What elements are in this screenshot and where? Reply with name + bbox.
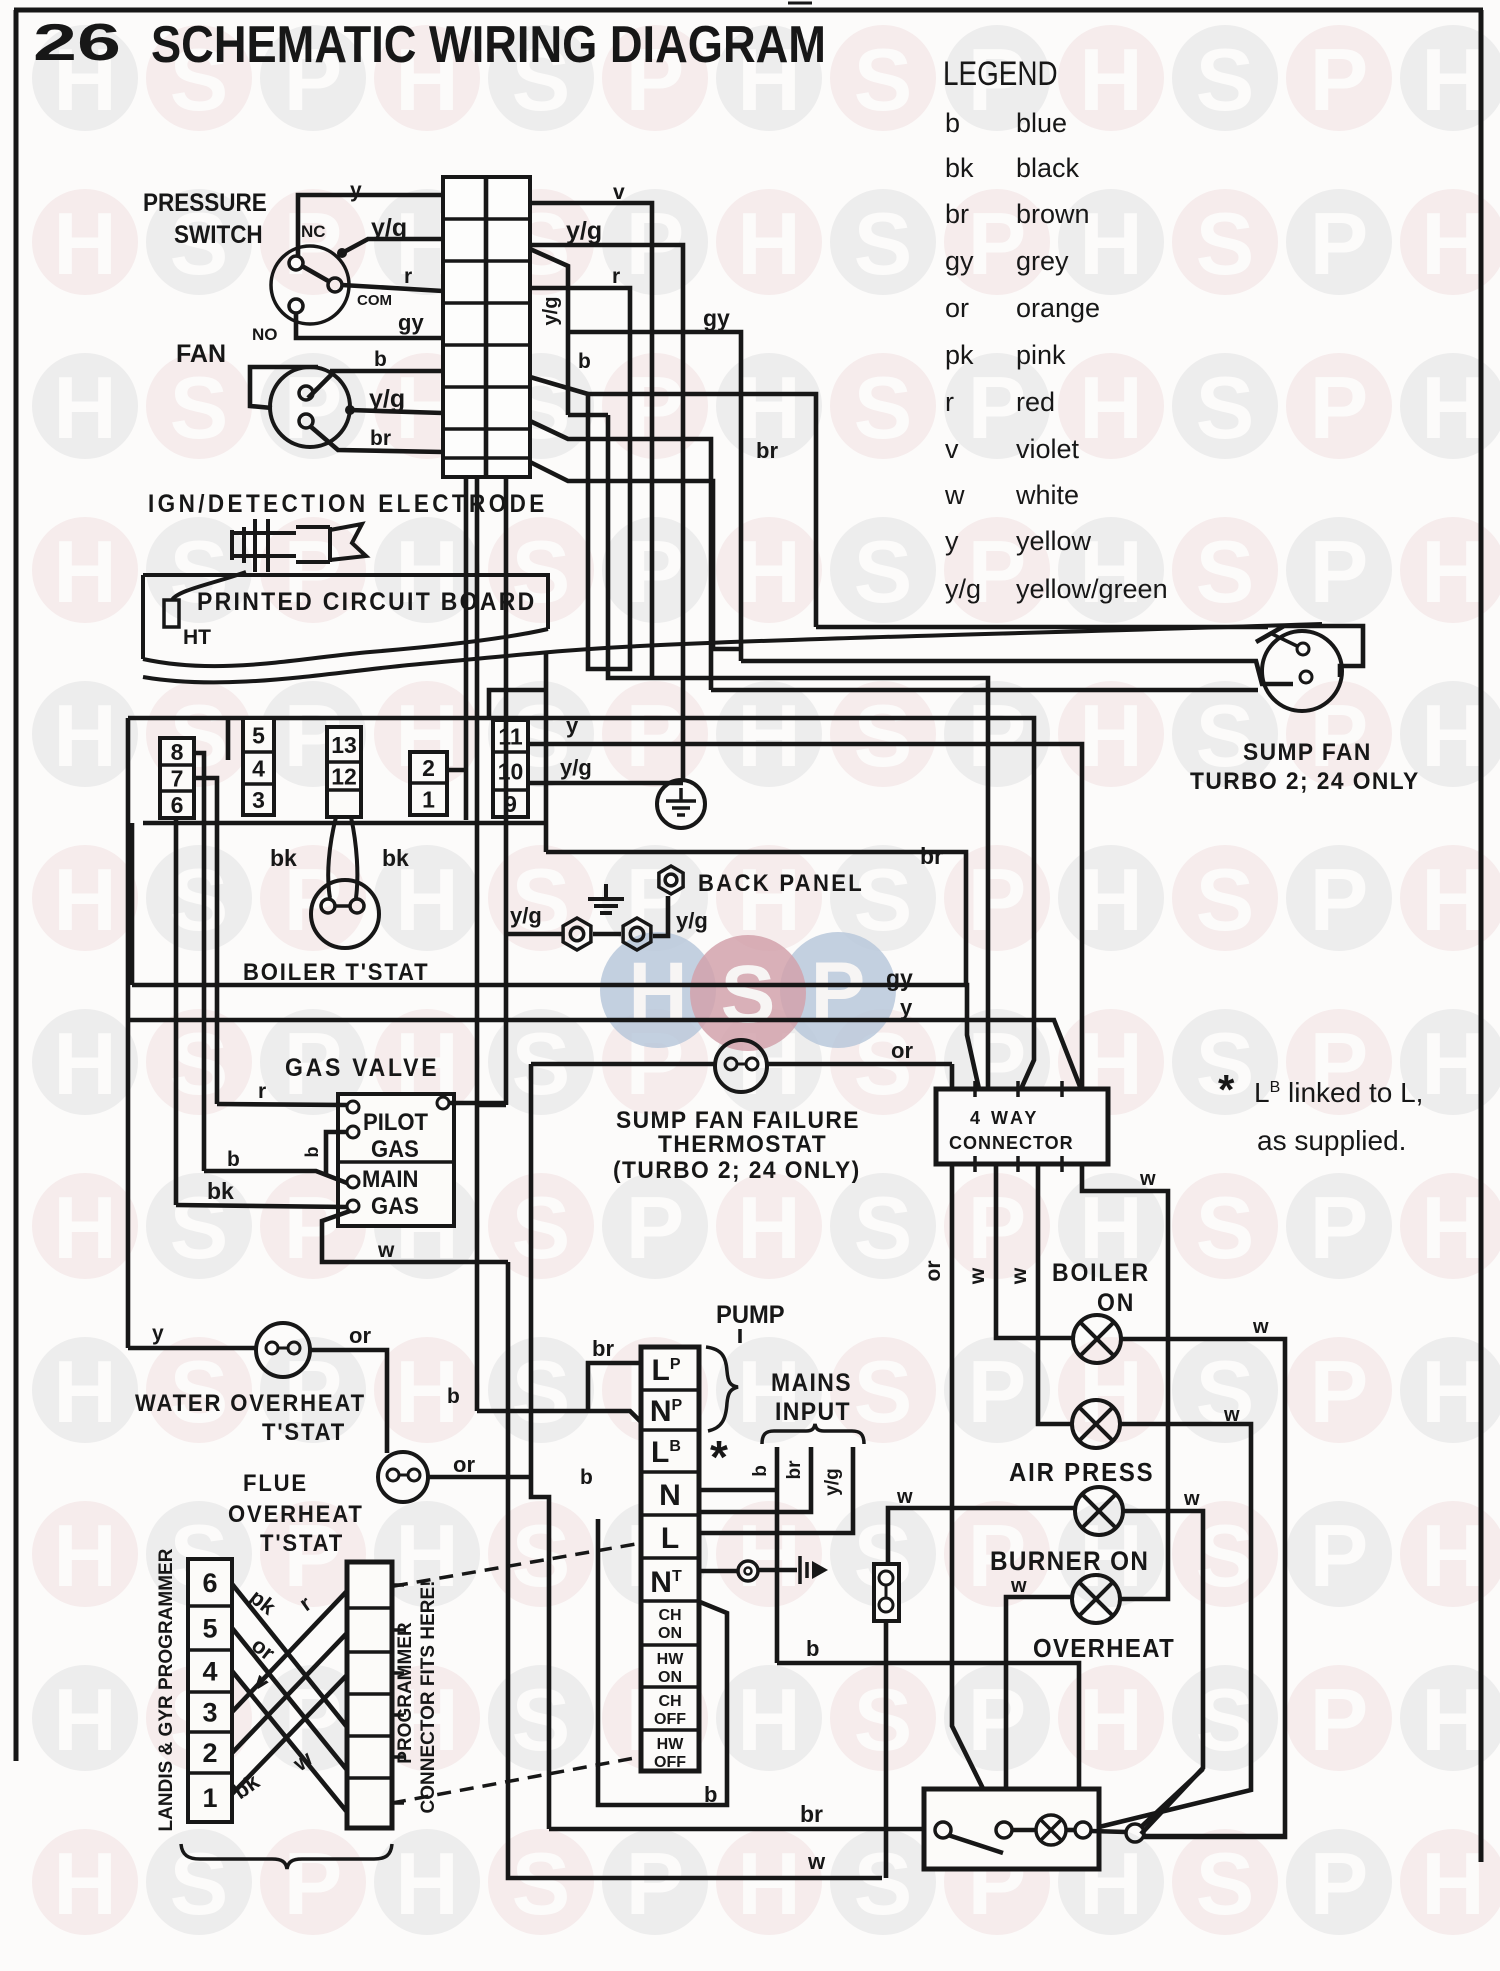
- svg-text:blue: blue: [1016, 108, 1067, 138]
- wire w3 from 4way to overheat right: [1082, 1164, 1168, 1599]
- wire br to pump L: [588, 1363, 641, 1411]
- wire r COM to connector: [342, 285, 443, 291]
- svg-text:P: P: [1310, 522, 1369, 621]
- wire y to water overheat: [128, 1346, 256, 1351]
- svg-text:3: 3: [252, 787, 265, 813]
- svg-text:or: or: [891, 1038, 913, 1063]
- page border right: [1479, 10, 1484, 1862]
- svg-text:H: H: [737, 194, 801, 293]
- 4way tick bottom x1018: [1016, 1156, 1020, 1172]
- svg-text:y/g: y/g: [822, 1468, 843, 1495]
- wire br jog connector: [530, 462, 741, 649]
- svg-text:gy: gy: [886, 965, 913, 991]
- fan terminal 1: [299, 386, 313, 400]
- svg-text:S: S: [1196, 358, 1255, 457]
- svg-text:br: br: [920, 843, 943, 869]
- svg-text:HT: HT: [183, 626, 211, 649]
- svg-text:S: S: [854, 850, 913, 949]
- svg-text:S: S: [1196, 194, 1255, 293]
- back panel bolt: [659, 866, 683, 894]
- wire w long vertical: [508, 1262, 882, 1878]
- svg-text:bk: bk: [382, 845, 409, 871]
- svg-text:P: P: [626, 522, 685, 621]
- svg-text:or: or: [349, 1323, 371, 1348]
- junction fan y/g: [345, 405, 355, 415]
- svg-text:H: H: [1421, 522, 1485, 621]
- svg-text:S: S: [854, 30, 913, 129]
- svg-text:r: r: [945, 387, 954, 417]
- flue overheat body: [378, 1452, 428, 1502]
- terminal strip divider 7: [641, 1643, 699, 1647]
- fo contact: [398, 1474, 409, 1477]
- svg-text:LANDIS & GYR PROGRAMMER: LANDIS & GYR PROGRAMMER: [156, 1548, 177, 1831]
- svg-text:PUMP: PUMP: [716, 1301, 785, 1329]
- pressure switch terminal NC: [289, 256, 303, 270]
- svg-text:13: 13: [331, 732, 357, 758]
- svg-text:S: S: [1196, 1178, 1255, 1277]
- programmer connector divider y1608: [347, 1606, 392, 1610]
- svg-text:HW: HW: [657, 1736, 685, 1753]
- svg-text:or: or: [453, 1452, 475, 1477]
- pressure switch terminal NO: [289, 299, 303, 313]
- svg-text:IGN/DETECTION ELECTRODE: IGN/DETECTION ELECTRODE: [148, 490, 548, 518]
- terminal strip divider 4: [641, 1513, 699, 1517]
- svg-text:CONNECTOR: CONNECTOR: [949, 1133, 1074, 1153]
- programmer connector divider y1652: [347, 1650, 392, 1654]
- svg-text:CH: CH: [658, 1607, 681, 1624]
- wire or flue overheat right: [428, 1475, 531, 1480]
- svg-text:brown: brown: [1016, 199, 1090, 229]
- svg-text:H: H: [1421, 1670, 1485, 1769]
- wire block10 y/g to earth: [528, 781, 683, 786]
- programmer wire 5 or: [232, 1628, 347, 1770]
- svg-text:r: r: [258, 1080, 266, 1103]
- wire bolt2 to back panel bolt: [653, 896, 668, 936]
- wire block 2 branch: [447, 768, 466, 773]
- wire r connector right: [530, 288, 630, 669]
- svg-text:P: P: [1310, 194, 1369, 293]
- svg-text:NC: NC: [301, 222, 326, 241]
- svg-text:w: w: [944, 480, 965, 510]
- wire bus y744 (y): [527, 744, 1082, 1089]
- svg-text:10: 10: [498, 758, 524, 784]
- pump pointer line: [738, 1329, 742, 1343]
- terminal strip divider 1: [641, 1388, 699, 1392]
- svg-text:CH: CH: [658, 1693, 681, 1710]
- 4 way connector body: [936, 1089, 1108, 1164]
- switch terminal 3: [1075, 1822, 1091, 1838]
- wire burner on right: [1123, 1511, 1203, 1834]
- svg-text:11: 11: [498, 723, 523, 749]
- programmer connector divider y1694: [347, 1692, 392, 1696]
- sump fan failure tstat body: [715, 1040, 767, 1092]
- svg-text:(TURBO 2; 24 ONLY): (TURBO 2; 24 ONLY): [613, 1156, 861, 1183]
- switch box body: [924, 1789, 1099, 1869]
- switch terminal 2: [996, 1822, 1012, 1838]
- svg-text:r: r: [612, 265, 620, 288]
- svg-text:S: S: [854, 522, 913, 621]
- fan terminal 1 lead: [308, 372, 334, 398]
- fan body: [270, 367, 350, 447]
- switch lever: [948, 1835, 1003, 1853]
- switch terminal 1: [935, 1822, 951, 1838]
- sump fan terminal 2: [1300, 671, 1312, 683]
- svg-text:T'STAT: T'STAT: [262, 1418, 346, 1445]
- svg-text:S: S: [721, 949, 776, 1040]
- lamp overheat: [1072, 1575, 1120, 1623]
- svg-text:yellow: yellow: [1016, 526, 1092, 556]
- wire bk left to boiler tstat: [328, 817, 336, 898]
- svg-text:H: H: [53, 1014, 117, 1113]
- svg-text:H: H: [53, 1506, 117, 1605]
- boiler tstat body: [311, 880, 379, 948]
- wire b bottom run: [777, 1663, 1079, 1823]
- wire bus y1020: [128, 1020, 1081, 1089]
- gas valve pin top right: [437, 1097, 449, 1109]
- svg-text:GAS VALVE: GAS VALVE: [285, 1054, 439, 1082]
- svg-text:P: P: [1310, 1178, 1369, 1277]
- wire mains b: [775, 1447, 780, 1663]
- svg-text:P: P: [626, 686, 685, 785]
- svg-text:bk: bk: [270, 845, 297, 871]
- svg-text:or: or: [922, 1261, 945, 1282]
- svg-text:SWITCH: SWITCH: [174, 221, 263, 249]
- strip enclosure: [598, 1519, 727, 1805]
- wire jog connector row5: [530, 421, 711, 690]
- svg-text:or: or: [945, 293, 969, 323]
- wire to sump fan 2: [741, 661, 1293, 684]
- gas valve pin main 2: [347, 1200, 359, 1212]
- wire or vertical to bottom switch: [952, 1064, 1004, 1831]
- 4way tick bottom x975: [973, 1156, 977, 1172]
- connector block 11 10 9: [493, 720, 528, 817]
- svg-text:H: H: [1421, 1342, 1485, 1441]
- wire b jog connector: [530, 377, 588, 394]
- page border left: [14, 10, 19, 1761]
- svg-text:S: S: [854, 686, 913, 785]
- wire bus y678: [608, 415, 988, 1089]
- svg-text:br: br: [592, 1336, 614, 1361]
- svg-text:GAS: GAS: [371, 1192, 419, 1219]
- svg-text:y/g: y/g: [371, 214, 407, 242]
- sf tstat terminal left: [725, 1058, 737, 1070]
- printed circuit board band lower wavy line: [143, 624, 1322, 682]
- wire gy NO to connector: [296, 313, 443, 338]
- svg-text:br: br: [370, 427, 391, 450]
- svg-text:7: 7: [171, 765, 184, 791]
- svg-text:H: H: [53, 1834, 117, 1933]
- svg-text:y/g: y/g: [676, 908, 708, 933]
- boiler tstat contact bar: [335, 904, 350, 908]
- wire from block 2: [464, 477, 469, 820]
- programmer connector tick y1585: [392, 1583, 404, 1587]
- svg-text:P: P: [968, 1670, 1027, 1769]
- programmer block left: [188, 1559, 232, 1822]
- svg-text:26: 26: [33, 13, 121, 71]
- svg-text:w: w: [1008, 1267, 1031, 1285]
- svg-text:OVERHEAT: OVERHEAT: [1033, 1634, 1175, 1663]
- pump brace: [706, 1347, 738, 1431]
- lamp boiler on: [1073, 1315, 1121, 1363]
- sump fan terminal lead: [1270, 633, 1297, 646]
- enclosure line above 876: [226, 718, 231, 760]
- svg-text:SUMP FAN FAILURE: SUMP FAN FAILURE: [616, 1106, 860, 1133]
- svg-text:H: H: [53, 1178, 117, 1277]
- svg-text:S: S: [854, 1834, 913, 1933]
- HT terminal: [164, 600, 179, 627]
- svg-text:4: 4: [202, 1657, 217, 1687]
- wire w from bottom pin: [322, 1211, 508, 1262]
- svg-text:4 WAY: 4 WAY: [970, 1108, 1039, 1128]
- svg-text:y: y: [945, 526, 959, 556]
- svg-text:H: H: [1421, 1506, 1485, 1605]
- svg-text:b: b: [750, 1465, 771, 1477]
- svg-text:P: P: [1310, 1670, 1369, 1769]
- svg-text:1: 1: [422, 786, 435, 812]
- wire y/g connector right to earth circle: [530, 245, 683, 780]
- svg-text:L: L: [661, 1522, 679, 1555]
- svg-text:H: H: [53, 686, 117, 785]
- svg-text:OFF: OFF: [654, 1754, 686, 1771]
- svg-text:FLUE: FLUE: [243, 1469, 308, 1496]
- svg-text:HW: HW: [657, 1651, 685, 1668]
- svg-text:P: P: [626, 358, 685, 457]
- scan artifact dash above border: [788, 2, 812, 5]
- svg-text:1: 1: [202, 1783, 217, 1813]
- svg-text:P: P: [1310, 1506, 1369, 1605]
- svg-text:H: H: [53, 358, 117, 457]
- svg-text:6: 6: [171, 792, 184, 818]
- bolt 1: [563, 918, 591, 950]
- wire fuse down: [884, 1621, 889, 1878]
- pcb module left vertical to gy line: [130, 823, 135, 985]
- svg-text:12: 12: [331, 763, 357, 789]
- svg-text:ON: ON: [658, 1669, 682, 1686]
- svg-text:BURNER ON: BURNER ON: [990, 1547, 1149, 1576]
- svg-text:H: H: [1079, 358, 1143, 457]
- boiler tstat terminal right: [350, 899, 364, 913]
- svg-text:S: S: [512, 1178, 571, 1277]
- svg-text:PRESSURE: PRESSURE: [143, 189, 267, 217]
- dashed link lower: [392, 1757, 640, 1803]
- terminal strip divider 5: [641, 1556, 699, 1560]
- wire bus y718: [128, 718, 1034, 1089]
- sump fan terminal 1: [1297, 643, 1309, 655]
- svg-text:b: b: [806, 1636, 819, 1661]
- connector block row line 5: [443, 385, 530, 389]
- svg-text:pink: pink: [1016, 340, 1066, 370]
- connector block row line 1: [443, 217, 530, 221]
- wire to sump fan 3 run: [711, 688, 1258, 693]
- programmer connector tick y1715: [392, 1713, 404, 1717]
- wire b horizontal 1411: [477, 1411, 641, 1422]
- svg-text:b: b: [374, 348, 387, 371]
- svg-text:w: w: [1252, 1316, 1269, 1338]
- terminal strip divider 2: [641, 1428, 699, 1432]
- wire or water overheat right: [310, 1350, 387, 1453]
- wire r block7 down to gas valve: [193, 778, 217, 1104]
- svg-text:H: H: [53, 850, 117, 949]
- svg-text:yellow/green: yellow/green: [1016, 574, 1168, 604]
- svg-text:y/g: y/g: [566, 217, 602, 245]
- connector block row line 3: [443, 301, 530, 305]
- svg-text:NO: NO: [252, 325, 278, 344]
- svg-text:grey: grey: [1016, 246, 1069, 276]
- programmer connector tick y1673: [392, 1671, 404, 1675]
- svg-text:H: H: [1421, 686, 1485, 785]
- wire y/g fan to connector: [349, 410, 443, 413]
- svg-text:COM: COM: [357, 292, 392, 309]
- svg-text:P: P: [968, 850, 1027, 949]
- wire b block8 down to gas valve: [193, 753, 204, 1171]
- svg-text:SCHEMATIC WIRING DIAGRAM: SCHEMATIC WIRING DIAGRAM: [151, 16, 826, 74]
- svg-text:5: 5: [252, 722, 265, 748]
- connector block 5 4 3: [243, 718, 274, 815]
- svg-text:br: br: [800, 1801, 823, 1827]
- sf tstat terminal right: [746, 1058, 758, 1070]
- svg-text:bk: bk: [207, 1178, 234, 1204]
- svg-text:H: H: [1421, 1834, 1485, 1933]
- wire burner on left: [888, 1508, 1075, 1564]
- svg-text:H: H: [1079, 686, 1143, 785]
- programmer underbrace: [181, 1844, 392, 1869]
- svg-text:S: S: [1196, 522, 1255, 621]
- svg-text:P: P: [1310, 850, 1369, 949]
- svg-text:y: y: [900, 995, 913, 1020]
- svg-text:y/g: y/g: [560, 755, 592, 780]
- central colored HSP logo: [600, 932, 896, 1051]
- svg-text:H: H: [53, 194, 117, 293]
- svg-text:PRINTED CIRCUIT BOARD: PRINTED CIRCUIT BOARD: [197, 588, 537, 616]
- svg-text:H: H: [1079, 1670, 1143, 1769]
- svg-text:H: H: [737, 1506, 801, 1605]
- svg-text:S: S: [1196, 850, 1255, 949]
- svg-text:br: br: [756, 438, 778, 463]
- svg-text:S: S: [512, 1670, 571, 1769]
- svg-text:w: w: [1223, 1404, 1240, 1426]
- 4way tick top x975: [973, 1081, 977, 1097]
- fuse circle bottom: [879, 1598, 893, 1612]
- fan terminal 2: [299, 414, 313, 428]
- svg-text:S: S: [170, 850, 229, 949]
- wire between bolts: [593, 932, 621, 937]
- gas valve pin main 1: [347, 1176, 359, 1188]
- wire y/g vertical 506: [504, 477, 509, 1105]
- svg-text:b: b: [227, 1148, 240, 1171]
- electrode symbol: [230, 519, 366, 572]
- link pilot2 to main1: [326, 1132, 347, 1174]
- wire y/g jog down: [530, 249, 568, 415]
- wire overheat left: [1006, 1597, 1072, 1831]
- svg-text:INPUT: INPUT: [775, 1398, 851, 1426]
- pressure switch body: [271, 246, 349, 324]
- svg-text:b: b: [578, 350, 591, 373]
- svg-text:y/g: y/g: [510, 903, 542, 928]
- svg-text:S: S: [1196, 30, 1255, 129]
- svg-text:S: S: [854, 194, 913, 293]
- 4way tick bottom x1062: [1060, 1156, 1064, 1172]
- wire bk block6 down to gas valve: [174, 817, 179, 1205]
- svg-text:5: 5: [202, 1614, 217, 1644]
- svg-text:H: H: [628, 946, 687, 1037]
- sump fan failure tstat left wire: [531, 1062, 714, 1067]
- svg-text:S: S: [854, 1178, 913, 1277]
- svg-text:FAN: FAN: [176, 340, 226, 368]
- programmer wire 6 pk: [232, 1584, 347, 1727]
- svg-text:H: H: [737, 686, 801, 785]
- bolt 2: [623, 918, 651, 950]
- svg-text:w: w: [1139, 1168, 1156, 1190]
- wire y pressure switch to connector: [298, 195, 443, 256]
- svg-text:gy: gy: [398, 310, 424, 335]
- svg-text:8: 8: [171, 739, 184, 765]
- svg-text:H: H: [737, 1834, 801, 1933]
- svg-text:WATER OVERHEAT: WATER OVERHEAT: [135, 1389, 366, 1416]
- svg-text:black: black: [1016, 153, 1080, 183]
- svg-text:OVERHEAT: OVERHEAT: [228, 1500, 364, 1527]
- svg-text:LEGEND: LEGEND: [943, 54, 1058, 92]
- wire b long vertical 477: [475, 477, 480, 1411]
- svg-text:3: 3: [202, 1698, 217, 1728]
- svg-text:P: P: [968, 686, 1027, 785]
- svg-text:6: 6: [202, 1568, 217, 1598]
- gas valve body: [338, 1094, 454, 1226]
- svg-text:y: y: [152, 1322, 164, 1345]
- connector block row line 7: [443, 456, 530, 460]
- svg-text:GAS: GAS: [371, 1135, 419, 1162]
- terminal strip divider 9: [641, 1728, 699, 1732]
- svg-text:MAINS: MAINS: [771, 1369, 852, 1397]
- wire air press right: [1099, 1424, 1251, 1827]
- dashed link upper: [394, 1544, 636, 1586]
- 4way tick top x1018: [1016, 1081, 1020, 1097]
- terminal strip body: [641, 1347, 699, 1771]
- wire b long run to sump fan drop: [588, 394, 816, 627]
- fuse circle top: [879, 1571, 893, 1585]
- wire y/g short run: [568, 413, 608, 418]
- wire v connector right: [530, 203, 652, 678]
- svg-text:P: P: [626, 1178, 685, 1277]
- svg-text:y/g: y/g: [945, 574, 981, 604]
- earth circle symbol: [657, 780, 705, 828]
- svg-text:SUMP FAN: SUMP FAN: [1243, 738, 1372, 765]
- svg-text:BOILER T'STAT: BOILER T'STAT: [243, 958, 429, 985]
- svg-text:H: H: [395, 1834, 459, 1933]
- programmer wire 1 bk: [232, 1675, 347, 1794]
- programmer connector block right: [347, 1562, 392, 1828]
- sump fan failure tstat right wire or: [767, 1062, 952, 1067]
- gas valve pin pilot 1: [347, 1101, 359, 1113]
- wire br fan to connector: [310, 426, 443, 452]
- svg-text:H: H: [1421, 850, 1485, 949]
- svg-text:white: white: [1015, 480, 1079, 510]
- fo terminal left: [387, 1469, 399, 1481]
- printed circuit board outline: [143, 575, 548, 659]
- terminal strip divider 8: [641, 1685, 699, 1689]
- terminal strip divider 3: [641, 1470, 699, 1474]
- switch lamp: [1036, 1815, 1066, 1845]
- sump fan housing: [1256, 626, 1363, 677]
- svg-text:y: y: [350, 179, 362, 202]
- svg-text:4: 4: [252, 755, 265, 781]
- wire boiler on right: [1121, 1339, 1285, 1837]
- svg-text:w: w: [1183, 1488, 1200, 1510]
- switch t4 diagonal to burner chain: [1141, 1769, 1203, 1827]
- svg-text:T'STAT: T'STAT: [260, 1529, 344, 1556]
- wire gy branch: [568, 332, 741, 649]
- programmer connector tick y1757: [392, 1755, 404, 1759]
- svg-text:H: H: [1079, 30, 1143, 129]
